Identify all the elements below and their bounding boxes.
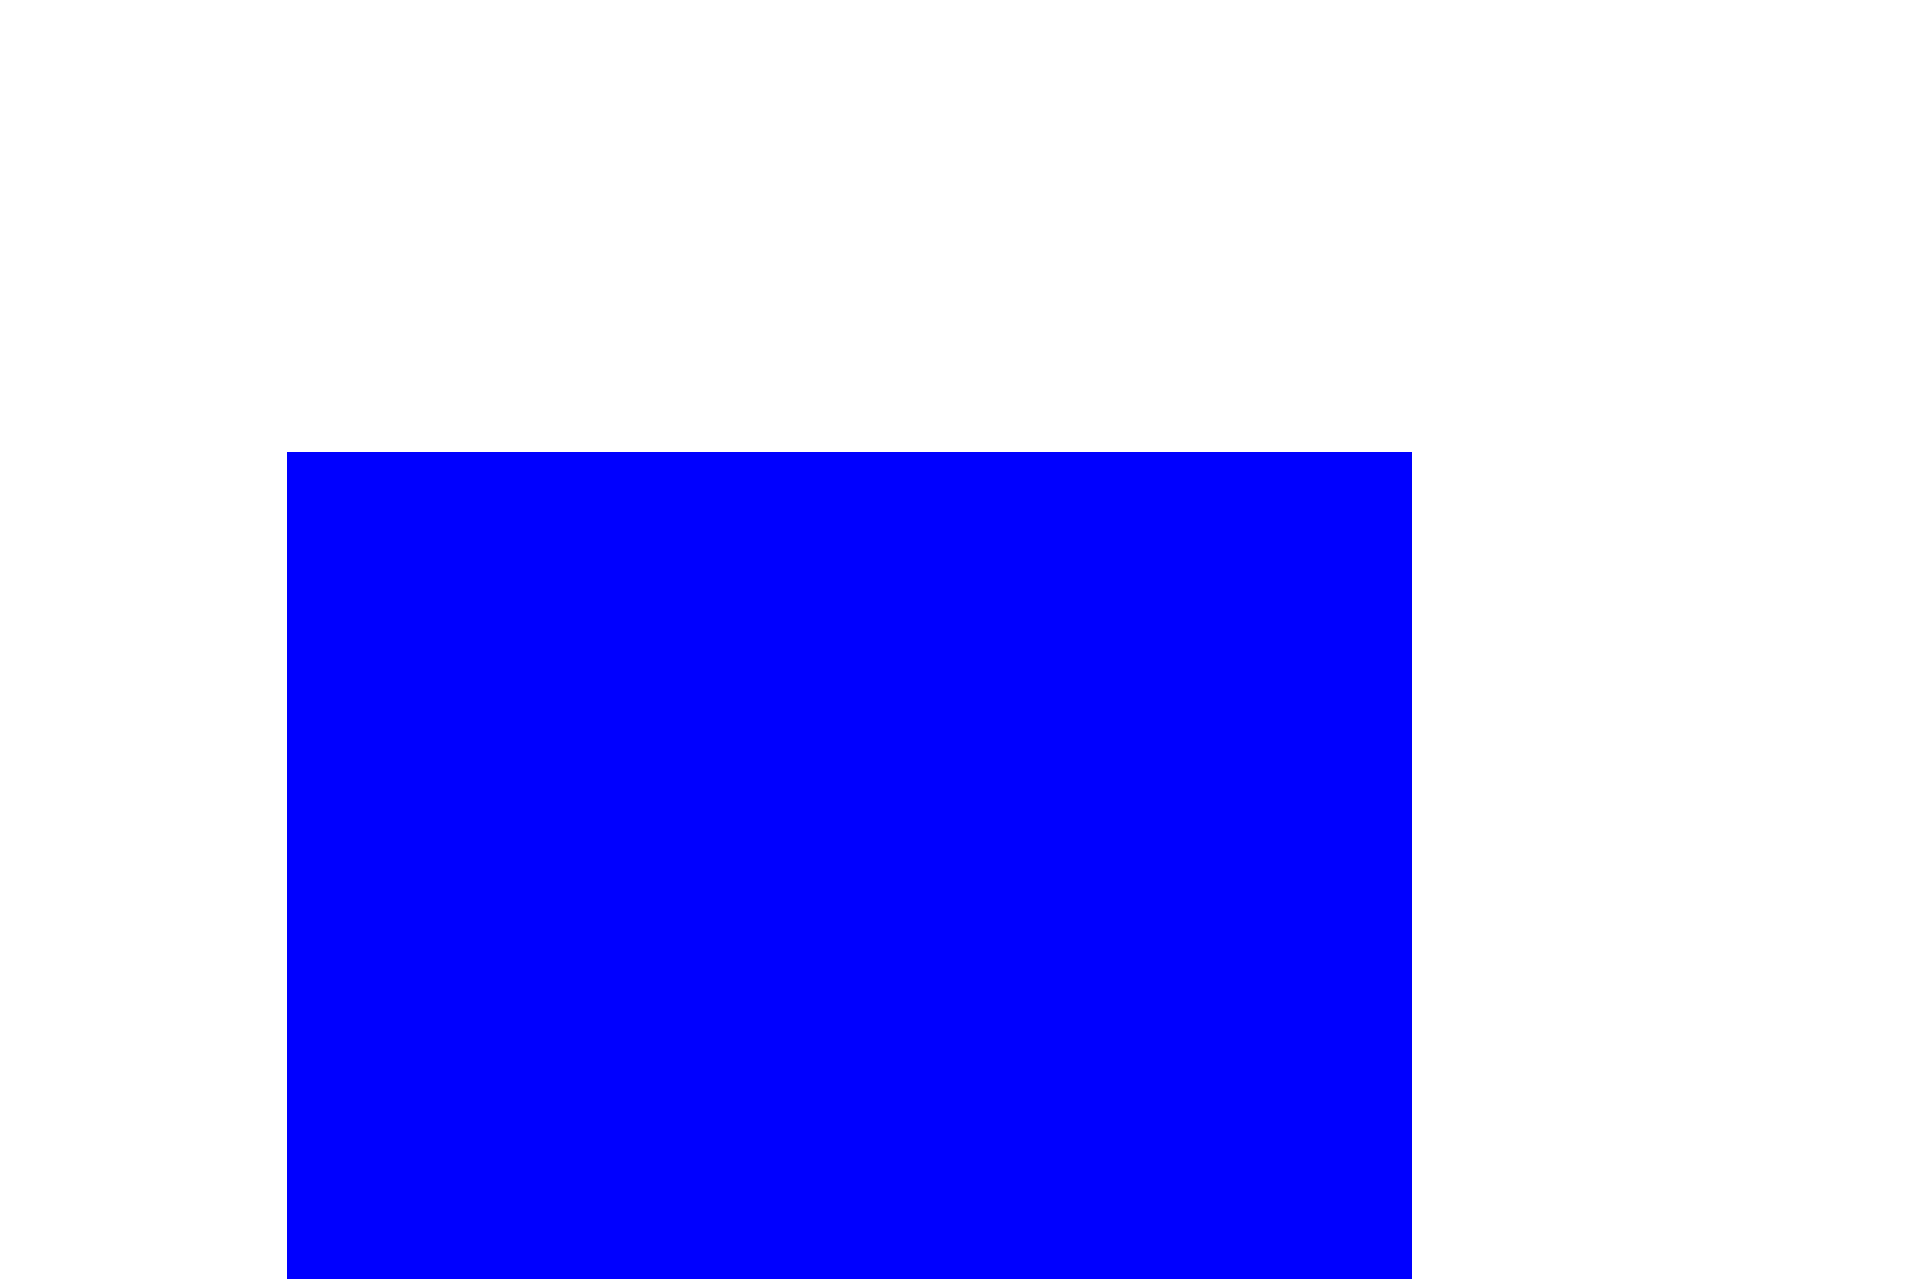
blue rectangle [287, 452, 1412, 1279]
